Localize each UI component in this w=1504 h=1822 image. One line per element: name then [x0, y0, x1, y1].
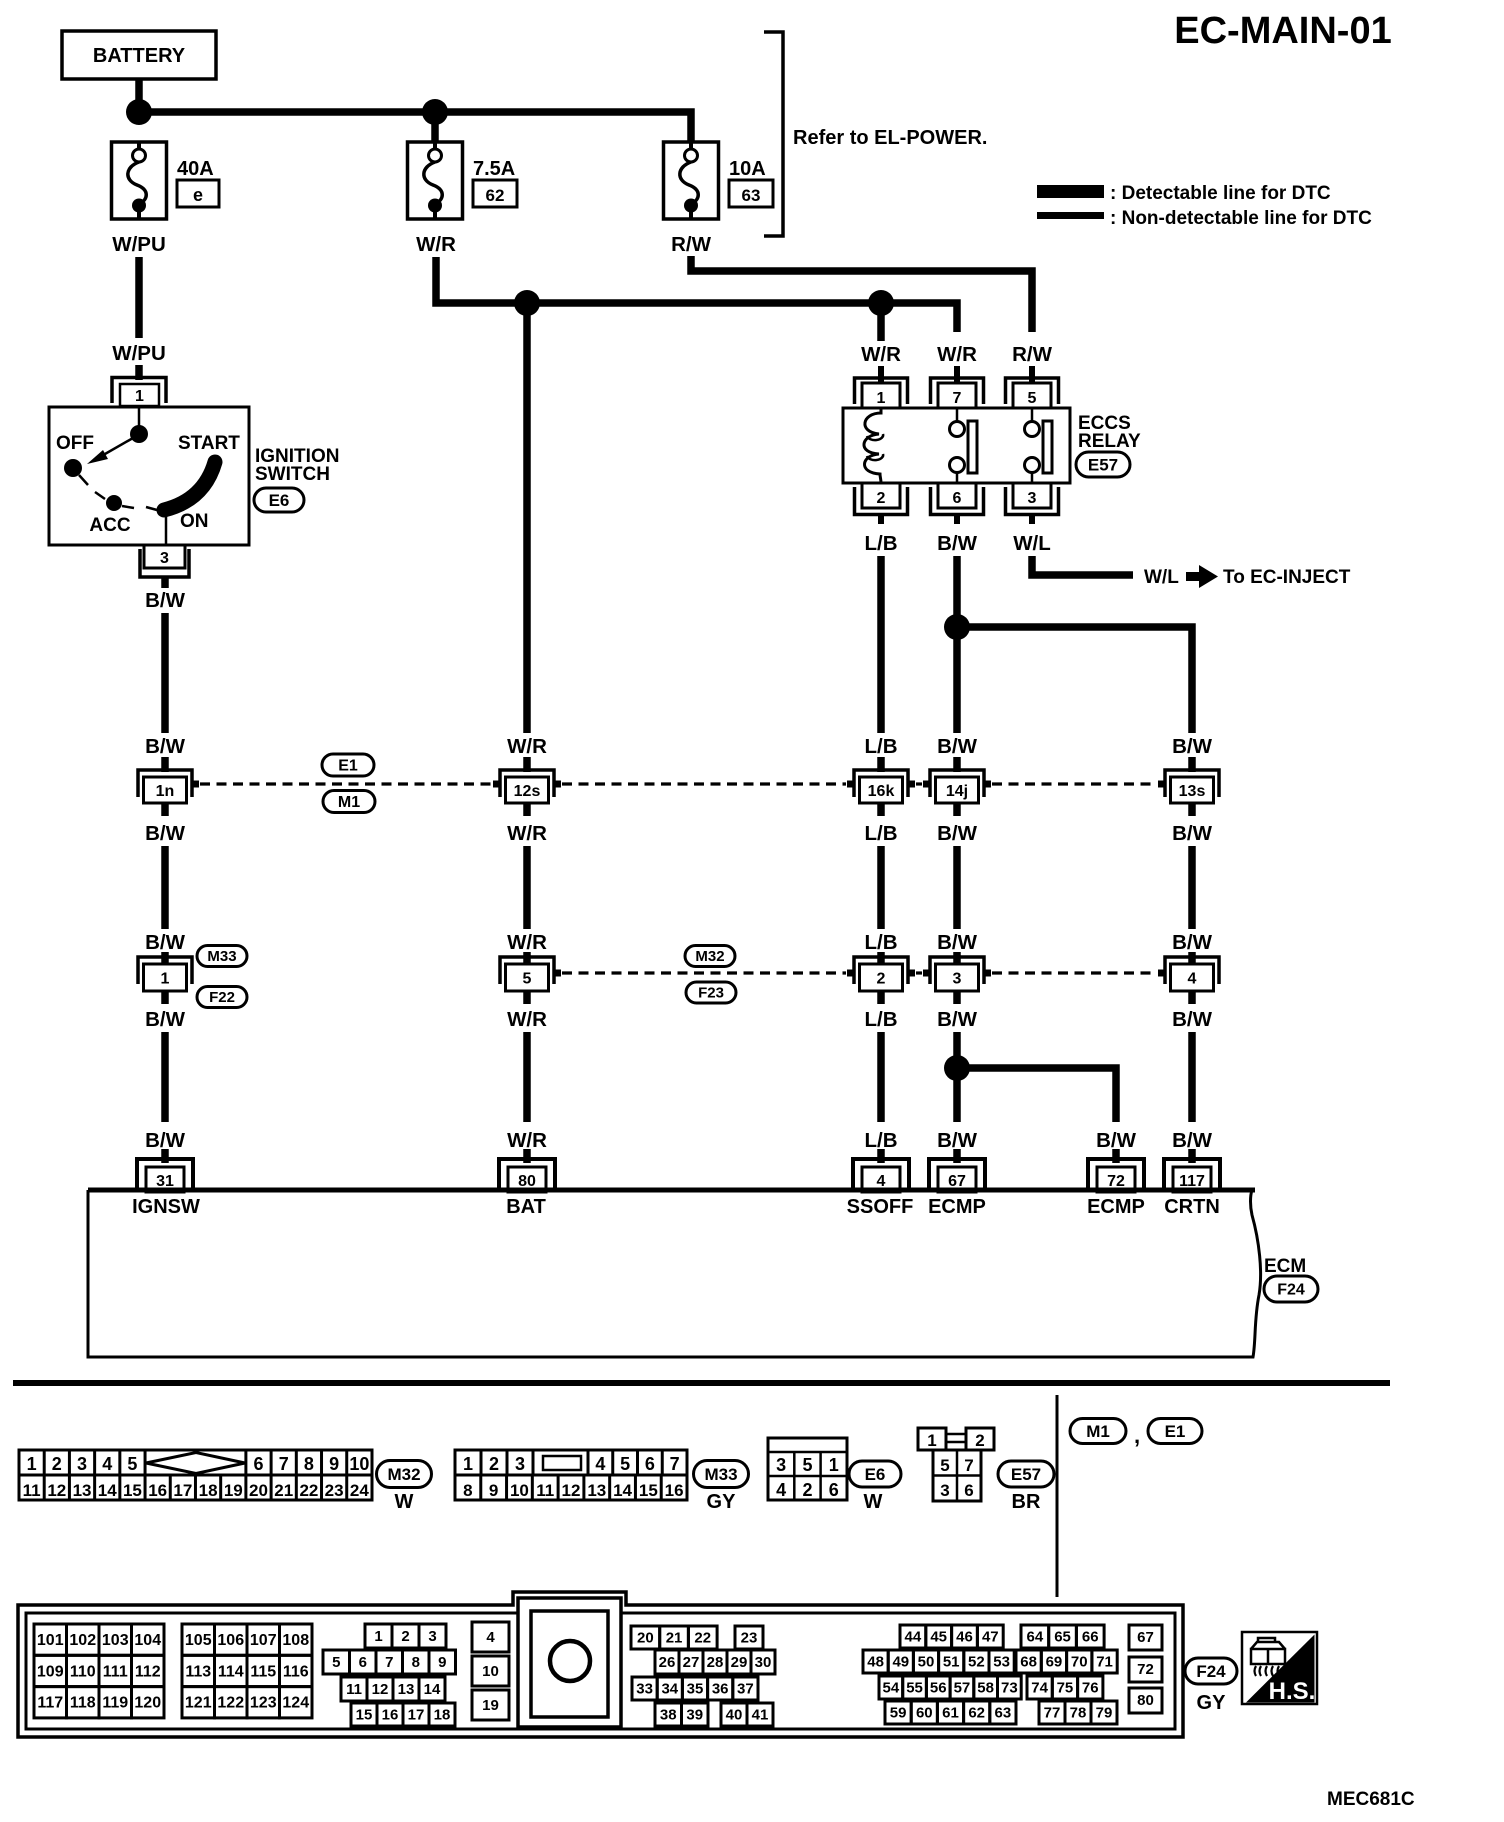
svg-text:12: 12 — [47, 1481, 66, 1500]
svg-text:W/R: W/R — [937, 343, 977, 366]
svg-text:44: 44 — [905, 1629, 922, 1646]
svg-text:B/W: B/W — [145, 1008, 186, 1031]
svg-text:6: 6 — [953, 490, 962, 507]
svg-text:119: 119 — [102, 1695, 128, 1712]
svg-text:75: 75 — [1057, 1680, 1074, 1697]
svg-text:3: 3 — [160, 550, 169, 567]
svg-text:76: 76 — [1082, 1680, 1099, 1697]
svg-text:40A: 40A — [177, 158, 214, 180]
svg-text:14: 14 — [98, 1481, 117, 1500]
svg-text:15: 15 — [123, 1481, 142, 1500]
svg-text:51: 51 — [943, 1654, 960, 1671]
svg-text:L/B: L/B — [864, 1129, 897, 1152]
svg-text:2: 2 — [877, 490, 886, 507]
svg-text:4: 4 — [1188, 970, 1197, 987]
svg-text:9: 9 — [489, 1481, 498, 1500]
svg-text:OFF: OFF — [56, 433, 94, 454]
svg-text:3: 3 — [940, 1481, 949, 1500]
svg-text:M1: M1 — [1086, 1422, 1110, 1441]
svg-text:4: 4 — [877, 1173, 886, 1190]
svg-text:120: 120 — [134, 1695, 161, 1712]
svg-text:17: 17 — [173, 1481, 192, 1500]
svg-text:57: 57 — [954, 1680, 971, 1697]
svg-text:7: 7 — [279, 1454, 289, 1474]
svg-text:L/B: L/B — [864, 532, 897, 555]
svg-text:62: 62 — [968, 1705, 985, 1722]
svg-text:MEC681C: MEC681C — [1327, 1789, 1415, 1810]
svg-text:14j: 14j — [946, 783, 968, 800]
svg-text:13: 13 — [398, 1681, 415, 1698]
svg-text:116: 116 — [283, 1663, 309, 1680]
svg-text:W/R: W/R — [416, 233, 456, 256]
svg-text:22: 22 — [694, 1630, 711, 1647]
svg-text:12s: 12s — [514, 783, 541, 800]
svg-text:START: START — [178, 433, 240, 454]
svg-text:M32: M32 — [387, 1465, 420, 1484]
svg-text:1: 1 — [374, 1628, 382, 1645]
svg-text:M1: M1 — [338, 794, 360, 811]
svg-text:4: 4 — [486, 1629, 495, 1646]
svg-text:W/R: W/R — [507, 1008, 547, 1031]
svg-text:12: 12 — [562, 1481, 581, 1500]
svg-text:67: 67 — [948, 1173, 966, 1190]
svg-text:11: 11 — [536, 1481, 554, 1500]
svg-text:10: 10 — [349, 1454, 369, 1474]
svg-text:8: 8 — [304, 1454, 314, 1474]
svg-text:B/W: B/W — [1172, 735, 1213, 758]
svg-text:121: 121 — [185, 1695, 212, 1712]
svg-text:21: 21 — [274, 1481, 293, 1500]
svg-text:B/W: B/W — [937, 1008, 978, 1031]
svg-text:53: 53 — [993, 1654, 1010, 1671]
svg-text:ACC: ACC — [89, 515, 130, 536]
svg-text:70: 70 — [1071, 1654, 1088, 1671]
svg-text:5: 5 — [1028, 390, 1037, 407]
svg-text:74: 74 — [1031, 1680, 1048, 1697]
svg-text:103: 103 — [102, 1632, 129, 1649]
svg-text:B/W: B/W — [937, 822, 978, 845]
svg-text:117: 117 — [1179, 1173, 1205, 1190]
svg-text:R/W: R/W — [671, 233, 712, 256]
svg-text:1: 1 — [927, 1431, 936, 1450]
svg-text:B/W: B/W — [1172, 931, 1213, 954]
svg-text:80: 80 — [1137, 1692, 1154, 1709]
svg-text:113: 113 — [185, 1663, 211, 1680]
svg-text:2: 2 — [52, 1454, 62, 1474]
svg-text:19: 19 — [224, 1481, 243, 1500]
svg-text:20: 20 — [249, 1481, 268, 1500]
svg-text:123: 123 — [250, 1695, 277, 1712]
svg-text:117: 117 — [37, 1695, 63, 1712]
svg-text:55: 55 — [906, 1680, 923, 1697]
svg-text:R/W: R/W — [1012, 343, 1053, 366]
svg-text:6: 6 — [359, 1654, 367, 1671]
svg-text:1: 1 — [463, 1454, 473, 1474]
svg-text:110: 110 — [70, 1663, 96, 1680]
svg-text:H.S.: H.S. — [1269, 1678, 1316, 1705]
svg-text:16: 16 — [148, 1481, 167, 1500]
svg-text:W/PU: W/PU — [112, 342, 166, 365]
svg-text:72: 72 — [1137, 1661, 1154, 1678]
svg-text:IGNSW: IGNSW — [132, 1196, 200, 1218]
svg-text:71: 71 — [1096, 1654, 1113, 1671]
svg-text:ECMP: ECMP — [928, 1196, 986, 1218]
svg-text:63: 63 — [995, 1705, 1012, 1722]
svg-text:E1: E1 — [338, 757, 358, 774]
svg-text:3: 3 — [1028, 490, 1037, 507]
svg-text:18: 18 — [199, 1481, 218, 1500]
svg-text:7: 7 — [953, 390, 962, 407]
svg-text:: Detectable line for DTC: : Detectable line for DTC — [1110, 183, 1331, 204]
svg-text:67: 67 — [1137, 1629, 1154, 1646]
svg-text:19: 19 — [482, 1697, 499, 1714]
svg-text:8: 8 — [463, 1481, 472, 1500]
svg-text:L/B: L/B — [864, 1008, 897, 1031]
svg-text:W/R: W/R — [507, 1129, 547, 1152]
svg-text:M33: M33 — [207, 948, 236, 965]
svg-text:E6: E6 — [269, 491, 290, 510]
svg-text:B/W: B/W — [937, 532, 978, 555]
svg-text:,: , — [1134, 1423, 1140, 1448]
svg-text:B/W: B/W — [145, 735, 186, 758]
svg-text:2: 2 — [401, 1628, 409, 1645]
svg-text:16: 16 — [665, 1481, 684, 1500]
svg-text:4: 4 — [102, 1454, 112, 1474]
svg-text:EC-MAIN-01: EC-MAIN-01 — [1174, 10, 1391, 52]
svg-text:1n: 1n — [156, 783, 175, 800]
svg-text:101: 101 — [37, 1632, 64, 1649]
svg-text:28: 28 — [707, 1654, 724, 1671]
svg-text:B/W: B/W — [145, 589, 186, 612]
svg-text:114: 114 — [218, 1663, 244, 1680]
svg-text:27: 27 — [683, 1654, 700, 1671]
svg-text:To EC-INJECT: To EC-INJECT — [1223, 567, 1351, 588]
svg-text:9: 9 — [438, 1654, 446, 1671]
svg-text:W: W — [395, 1491, 414, 1513]
svg-text:63: 63 — [742, 186, 761, 205]
svg-text:65: 65 — [1054, 1629, 1071, 1646]
svg-text:4: 4 — [595, 1454, 605, 1474]
svg-text:115: 115 — [250, 1663, 276, 1680]
svg-text:1: 1 — [27, 1454, 37, 1474]
svg-text:ECMP: ECMP — [1087, 1196, 1145, 1218]
svg-text:1: 1 — [161, 970, 170, 987]
svg-text:L/B: L/B — [864, 822, 897, 845]
svg-text:W/R: W/R — [507, 822, 547, 845]
svg-text:15: 15 — [356, 1707, 373, 1724]
svg-text:31: 31 — [156, 1173, 174, 1190]
svg-text:BR: BR — [1012, 1491, 1041, 1513]
svg-text:W/R: W/R — [861, 343, 901, 366]
svg-text:10: 10 — [482, 1663, 499, 1680]
svg-text:15: 15 — [639, 1481, 658, 1500]
svg-text:13: 13 — [587, 1481, 606, 1500]
svg-text:24: 24 — [350, 1481, 369, 1500]
svg-text:5: 5 — [332, 1654, 340, 1671]
svg-text:39: 39 — [686, 1707, 703, 1724]
svg-text:106: 106 — [217, 1632, 244, 1649]
svg-text:SWITCH: SWITCH — [255, 464, 330, 485]
svg-text:40: 40 — [726, 1707, 743, 1724]
svg-text:3: 3 — [515, 1454, 525, 1474]
svg-text:52: 52 — [968, 1654, 985, 1671]
svg-text:78: 78 — [1070, 1705, 1087, 1722]
svg-text:14: 14 — [424, 1681, 441, 1698]
svg-text:6: 6 — [829, 1480, 839, 1500]
svg-text:1: 1 — [829, 1455, 839, 1475]
svg-text:B/W: B/W — [145, 931, 186, 954]
svg-text:11: 11 — [346, 1681, 362, 1698]
svg-text:W/PU: W/PU — [112, 233, 166, 256]
svg-text:5: 5 — [802, 1455, 812, 1475]
svg-text:RELAY: RELAY — [1078, 431, 1141, 452]
svg-text:12: 12 — [372, 1681, 389, 1698]
svg-text:112: 112 — [135, 1663, 161, 1680]
svg-text:B/W: B/W — [1172, 822, 1213, 845]
svg-text:30: 30 — [755, 1654, 772, 1671]
svg-text:26: 26 — [659, 1654, 676, 1671]
svg-text:BAT: BAT — [506, 1196, 546, 1218]
svg-text:111: 111 — [103, 1663, 128, 1680]
svg-text:6: 6 — [645, 1454, 655, 1474]
svg-text:10: 10 — [510, 1481, 529, 1500]
svg-text:GY: GY — [707, 1491, 737, 1513]
svg-text:104: 104 — [134, 1632, 161, 1649]
svg-text:3: 3 — [77, 1454, 87, 1474]
svg-text:16: 16 — [382, 1707, 399, 1724]
svg-text:35: 35 — [687, 1681, 704, 1698]
svg-text:17: 17 — [408, 1707, 425, 1724]
svg-text:56: 56 — [930, 1680, 947, 1697]
svg-text:W: W — [864, 1491, 883, 1513]
svg-text:48: 48 — [867, 1654, 884, 1671]
svg-text:7: 7 — [964, 1456, 973, 1475]
svg-text:16k: 16k — [868, 783, 895, 800]
svg-text:79: 79 — [1096, 1705, 1113, 1722]
svg-text:61: 61 — [942, 1705, 959, 1722]
svg-text:122: 122 — [217, 1695, 244, 1712]
svg-text:3: 3 — [953, 970, 962, 987]
svg-text:1: 1 — [135, 388, 144, 405]
svg-text:B/W: B/W — [1096, 1129, 1137, 1152]
svg-text:72: 72 — [1107, 1173, 1125, 1190]
svg-text:54: 54 — [883, 1680, 900, 1697]
svg-text:L/B: L/B — [864, 931, 897, 954]
svg-text:F24: F24 — [1196, 1662, 1226, 1681]
svg-text:21: 21 — [666, 1630, 683, 1647]
svg-text:59: 59 — [890, 1705, 907, 1722]
svg-text:: Non-detectable line for DTC: : Non-detectable line for DTC — [1110, 208, 1372, 229]
svg-text:ECM: ECM — [1264, 1256, 1306, 1277]
svg-text:Refer to EL-POWER.: Refer to EL-POWER. — [793, 127, 987, 149]
svg-text:105: 105 — [185, 1632, 212, 1649]
svg-text:80: 80 — [518, 1173, 536, 1190]
svg-text:F23: F23 — [698, 985, 724, 1002]
svg-text:7: 7 — [385, 1654, 393, 1671]
svg-text:B/W: B/W — [937, 1129, 978, 1152]
svg-text:1: 1 — [877, 390, 886, 407]
svg-text:77: 77 — [1044, 1705, 1061, 1722]
svg-text:118: 118 — [70, 1695, 96, 1712]
svg-text:68: 68 — [1020, 1654, 1037, 1671]
svg-text:6: 6 — [964, 1481, 973, 1500]
svg-text:B/W: B/W — [145, 822, 186, 845]
svg-text:46: 46 — [956, 1629, 973, 1646]
svg-text:22: 22 — [299, 1481, 318, 1500]
svg-text:23: 23 — [325, 1481, 344, 1500]
svg-text:13s: 13s — [1179, 783, 1206, 800]
svg-text:W/R: W/R — [507, 735, 547, 758]
svg-text:11: 11 — [23, 1481, 41, 1500]
svg-text:107: 107 — [250, 1632, 277, 1649]
svg-text:38: 38 — [660, 1707, 677, 1724]
svg-text:62: 62 — [486, 186, 505, 205]
svg-text:18: 18 — [434, 1707, 451, 1724]
svg-text:E6: E6 — [865, 1465, 886, 1484]
svg-text:45: 45 — [930, 1629, 947, 1646]
svg-text:108: 108 — [282, 1632, 309, 1649]
svg-text:33: 33 — [636, 1681, 653, 1698]
svg-text:64: 64 — [1027, 1629, 1044, 1646]
svg-text:BATTERY: BATTERY — [93, 45, 186, 67]
svg-text:L/B: L/B — [864, 735, 897, 758]
svg-text:F24: F24 — [1277, 1281, 1305, 1298]
svg-text:36: 36 — [712, 1681, 729, 1698]
svg-text:9: 9 — [329, 1454, 339, 1474]
svg-text:W/L: W/L — [1144, 567, 1179, 588]
svg-text:7.5A: 7.5A — [473, 158, 515, 180]
svg-text:34: 34 — [661, 1681, 678, 1698]
svg-text:49: 49 — [892, 1654, 909, 1671]
svg-text:GY: GY — [1197, 1692, 1227, 1714]
svg-text:SSOFF: SSOFF — [847, 1196, 914, 1218]
svg-text:M32: M32 — [695, 948, 724, 965]
svg-text:47: 47 — [982, 1629, 999, 1646]
svg-text:2: 2 — [877, 970, 886, 987]
svg-text:E57: E57 — [1011, 1465, 1041, 1484]
svg-text:3: 3 — [776, 1455, 786, 1475]
svg-text:8: 8 — [412, 1654, 420, 1671]
svg-text:F22: F22 — [209, 989, 235, 1006]
svg-text:23: 23 — [741, 1630, 758, 1647]
svg-text:5: 5 — [620, 1454, 630, 1474]
svg-text:50: 50 — [918, 1654, 935, 1671]
svg-text:W/L: W/L — [1013, 532, 1051, 555]
svg-text:13: 13 — [73, 1481, 92, 1500]
svg-text:4: 4 — [776, 1480, 786, 1500]
svg-text:20: 20 — [637, 1630, 654, 1647]
svg-text:E57: E57 — [1088, 455, 1118, 474]
svg-text:41: 41 — [752, 1707, 769, 1724]
svg-text:73: 73 — [1001, 1680, 1018, 1697]
svg-text:58: 58 — [977, 1680, 994, 1697]
svg-text:M33: M33 — [704, 1465, 737, 1484]
svg-text:2: 2 — [802, 1480, 812, 1500]
svg-text:5: 5 — [127, 1454, 137, 1474]
svg-text:29: 29 — [731, 1654, 748, 1671]
svg-text:66: 66 — [1082, 1629, 1099, 1646]
svg-text:B/W: B/W — [1172, 1008, 1213, 1031]
svg-text:W/R: W/R — [507, 931, 547, 954]
svg-text:3: 3 — [428, 1628, 436, 1645]
svg-text:37: 37 — [737, 1681, 754, 1698]
svg-text:109: 109 — [37, 1663, 64, 1680]
svg-text:124: 124 — [282, 1695, 309, 1712]
svg-text:10A: 10A — [729, 158, 766, 180]
svg-text:CRTN: CRTN — [1164, 1196, 1220, 1218]
svg-text:60: 60 — [916, 1705, 933, 1722]
svg-text:B/W: B/W — [1172, 1129, 1213, 1152]
svg-text:14: 14 — [613, 1481, 632, 1500]
svg-text:2: 2 — [489, 1454, 499, 1474]
svg-text:5: 5 — [940, 1456, 949, 1475]
svg-text:102: 102 — [69, 1632, 96, 1649]
svg-text:B/W: B/W — [937, 735, 978, 758]
svg-text:5: 5 — [523, 970, 532, 987]
svg-text:7: 7 — [670, 1454, 680, 1474]
svg-text:B/W: B/W — [937, 931, 978, 954]
svg-text:2: 2 — [975, 1431, 984, 1450]
svg-text:69: 69 — [1046, 1654, 1063, 1671]
svg-text:6: 6 — [253, 1454, 263, 1474]
svg-text:ON: ON — [180, 511, 209, 532]
svg-text:e: e — [193, 185, 203, 205]
svg-text:E1: E1 — [1165, 1422, 1186, 1441]
svg-text:B/W: B/W — [145, 1129, 186, 1152]
